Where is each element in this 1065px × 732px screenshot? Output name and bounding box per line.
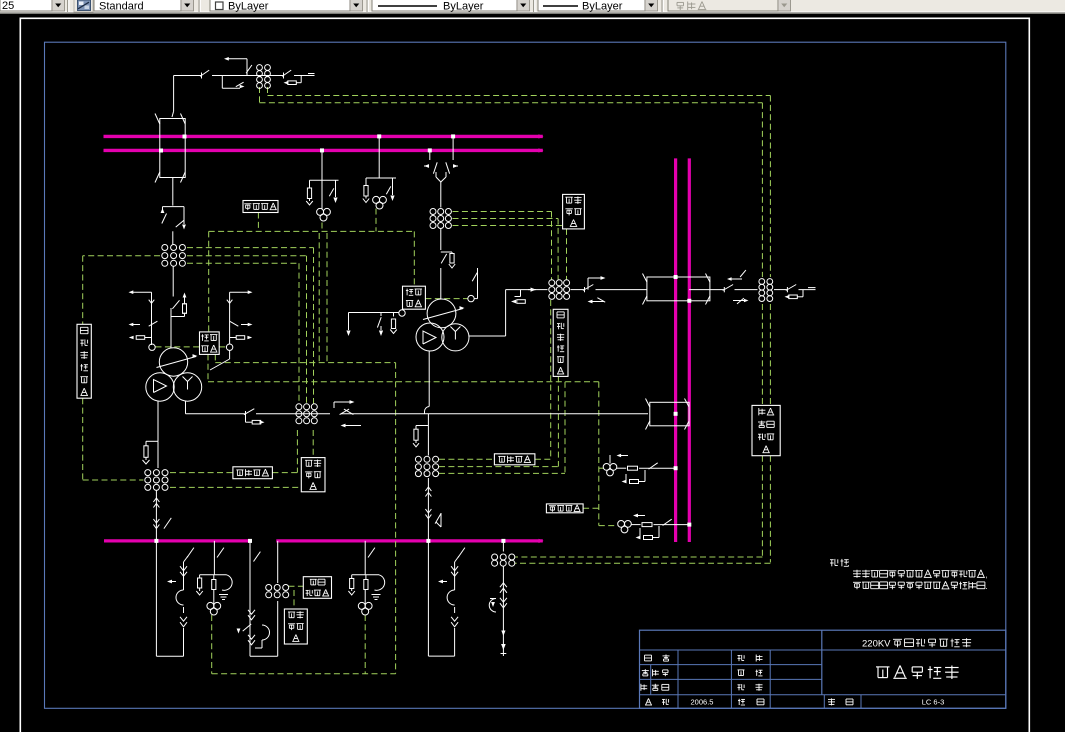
left switch group at T1 (HV neutral gear) bbox=[133, 291, 152, 293]
CT110 3x3 on 110kV feeder bbox=[415, 456, 421, 462]
protection wiring: top CT pair to line CT loop (lower) bbox=[260, 102, 763, 104]
T2 switch group left (10kV tertiary) bbox=[349, 312, 400, 314]
protection wiring: zero-seq box1 second bottom stub bbox=[214, 354, 216, 362]
surge arrester on T1 LV bbox=[145, 441, 147, 446]
220kV outgoing line row bbox=[506, 289, 548, 291]
node circle right of zero-seq box2 bbox=[468, 295, 474, 301]
busbar 110kV bus W4 vertical bbox=[688, 158, 691, 542]
PT bay P1 on bus W2 bbox=[321, 150, 323, 180]
junction dot P2 on bus W1 bbox=[377, 134, 381, 138]
label box: overload protection 1 bbox=[563, 194, 585, 229]
svg-text:ByLayer: ByLayer bbox=[582, 1, 623, 13]
T2 LV drop to 110kV row bbox=[428, 351, 430, 407]
toolbar combo: plot style (disabled) bbox=[668, 0, 778, 11]
title block text: drawing title bbox=[876, 666, 959, 680]
wire CT2 to T2 with disconnector bbox=[440, 229, 442, 251]
feeder row Y524 from trefoil to bus W4 bbox=[618, 521, 625, 528]
label box: overload protection 3 bbox=[284, 609, 307, 644]
svg-text:Standard: Standard bbox=[99, 1, 144, 13]
protection wiring: top line CT tails bbox=[259, 87, 261, 103]
protection wiring: long run y382 bbox=[208, 381, 599, 383]
label box: longitudinal differential protection 2 bbox=[233, 467, 273, 479]
disconnector QS1 on incoming line bbox=[200, 70, 209, 76]
title block small labels bbox=[645, 655, 652, 661]
110kV breaker frame QF2 across vertical buses bbox=[650, 402, 689, 426]
junction square T1 on 10kV bus bbox=[154, 539, 158, 543]
protection wiring: zero-seq box1 bottom run bbox=[207, 354, 209, 381]
CT6 on outgoing feeder 3x2 bbox=[492, 554, 498, 560]
svg-text::: : bbox=[848, 559, 850, 568]
feeder drawout + switch to line arrow bbox=[502, 567, 504, 657]
toolbar icon button standard style bbox=[74, 0, 93, 12]
T2 MV link to 220kV outgoing row bbox=[469, 335, 506, 337]
label box: two-stage current protection bbox=[752, 405, 780, 455]
CT2 220kV side of T2 3x3 bbox=[430, 209, 436, 215]
CT2a 110kV side 3x3 bbox=[296, 404, 302, 410]
busbar 10kV bus section A bbox=[104, 539, 252, 542]
10kV bus-tie bay U-loop bbox=[249, 541, 251, 656]
protection wiring: zero-seq box2 to node bbox=[425, 298, 467, 300]
protection wiring: zero-seq box1 lead left bbox=[156, 346, 200, 348]
CT1b 10kV side 3x3 bbox=[145, 470, 151, 476]
protection wiring: CT1 row2 right to collector bbox=[187, 255, 307, 257]
transformer T1 three-winding bbox=[159, 348, 187, 376]
busbar 220kV bus W2 horizontal bbox=[104, 149, 543, 152]
toolbar combo: Standard bbox=[94, 0, 181, 11]
toolbar combo: color ByLayer bbox=[210, 0, 350, 11]
protection wiring: CT2a verticals below bbox=[296, 430, 298, 473]
svg-text:220KV: 220KV bbox=[862, 639, 891, 650]
feeder row Y468 from trefoil to bus W3 bbox=[609, 455, 611, 464]
double disconnector on outgoing row bbox=[583, 285, 593, 291]
label box: bus protection 2 bbox=[546, 504, 583, 513]
protection wiring: PT1 trefoil pair verticals bbox=[318, 233, 320, 363]
10kV bay B1: transformer feeder U-loop bbox=[155, 541, 157, 656]
svg-text:,: , bbox=[986, 571, 988, 580]
protection wiring: overload box T1 drop to 220kV CT bbox=[566, 229, 568, 280]
CT1 220kV side 3x3 bbox=[162, 245, 168, 251]
protection wiring: CT1b row3 to overload box2 bbox=[170, 486, 301, 488]
110kV row wire bbox=[186, 413, 246, 415]
10kV bay B4: PT bay 2 bbox=[364, 541, 366, 562]
protection wiring: CT1b row1 to long-diff box2 bbox=[170, 472, 233, 474]
CT5 on bus-tie 3x2 bbox=[266, 585, 272, 591]
protection wiring: CT1 row1 to collector bbox=[187, 247, 314, 249]
wire: breaker to disconnector pair bbox=[172, 178, 174, 206]
toolbar combo: lineweight ByLayer bbox=[538, 0, 645, 11]
protection wiring: zero-seq box1 lead right bbox=[219, 346, 226, 348]
protection wiring: bus protection box2 link bbox=[583, 507, 599, 509]
label box: current quick-break protection 1 (vertical) bbox=[77, 324, 91, 398]
disconnector QS2 on incoming line bbox=[282, 70, 291, 76]
arrester branch at T2 HV bbox=[441, 251, 452, 253]
arrow+arrester on outgoing row left bbox=[520, 290, 522, 297]
notes: shuoming text bbox=[830, 559, 849, 566]
double disconnector on 110kV row bbox=[340, 409, 350, 415]
disconnector pair QS3 bbox=[163, 206, 185, 208]
junction dot P1 on bus W2 bbox=[320, 148, 324, 152]
disconnector on T1 HV bbox=[172, 300, 179, 309]
surge arrester branch T1 HV bbox=[171, 316, 185, 318]
protection wiring: long vertical x396 bbox=[395, 363, 397, 674]
node circle below zero-seq box2 bbox=[399, 310, 405, 316]
toolbar combo: text size 25 bbox=[0, 0, 52, 11]
10kV bay B2: PT bay bbox=[213, 541, 215, 562]
svg-text:ByLayer: ByLayer bbox=[443, 1, 484, 13]
protection wiring: PT2 drop bbox=[375, 209, 377, 232]
protection wiring: mid run y362 bbox=[215, 362, 395, 364]
protection wiring: PT1 drop bbox=[321, 223, 323, 232]
svg-text:2006.5: 2006.5 bbox=[691, 698, 714, 707]
double disconnector right of QF3 bbox=[723, 285, 733, 291]
drawout chevrons + switch on 110kV feeder bbox=[425, 487, 431, 491]
T2 bay drops from buses bbox=[429, 150, 431, 160]
protection wiring: CT110 rows to boxes bbox=[439, 458, 494, 460]
protection wiring: bus protection box 1 drop bbox=[257, 213, 259, 232]
label box: overcurrent protection bbox=[303, 577, 331, 599]
PT bay P2 on bus W1 bbox=[378, 136, 380, 178]
transformer T2 three-winding bbox=[427, 299, 456, 328]
label box: bus protection 1 bbox=[243, 201, 278, 213]
110kV feeder drop from row to 10kV bus bbox=[427, 414, 429, 456]
T1 MV lead to 110kV row bbox=[185, 401, 187, 414]
wire: incoming drop to breaker bbox=[173, 76, 175, 112]
protection wiring: CT2 rows to 220kV line CT columns bbox=[453, 211, 552, 213]
node circle T1 left bbox=[149, 344, 155, 350]
CT3 on outgoing row 3x3 bbox=[549, 280, 555, 286]
breaker QF1 frame across 220kV buses bbox=[160, 119, 185, 178]
svg-text:ByLayer: ByLayer bbox=[228, 1, 269, 13]
protection wiring: top CT pair to line CT loop (upper) bbox=[268, 95, 771, 97]
toolbar combo: linetype ByLayer bbox=[372, 0, 517, 11]
disconnector + arrester on 110kV row left bbox=[244, 409, 254, 415]
arrester branch on 110kV feeder bbox=[416, 425, 428, 427]
right switch group at T2 link bbox=[230, 291, 248, 293]
label box: zero sequence protection 1 bbox=[200, 332, 220, 355]
protection wiring: CT1 row3 to collector bbox=[187, 262, 299, 264]
toolbar background bbox=[0, 0, 1065, 13]
junction dots on buses at breaker QF1 bbox=[183, 135, 187, 139]
svg-text:25: 25 bbox=[2, 0, 14, 12]
10kV bay B5: feeder U-loop 2 bbox=[427, 541, 429, 656]
earth resistor branch on incoming line bbox=[300, 76, 302, 83]
label box: overload protection 2 bbox=[301, 458, 325, 492]
10kV outgoing feeder with CT bbox=[502, 541, 504, 552]
svg-text:.: . bbox=[986, 582, 988, 591]
protection wiring: feeder CT to boxes (bottom) bbox=[289, 585, 304, 587]
wire: CT1 to transformer T1 bbox=[172, 267, 174, 297]
branch arrow down-right bbox=[221, 76, 223, 89]
busbar 110kV bus W3 vertical bbox=[674, 158, 677, 542]
wire: 220kV incoming line bbox=[174, 75, 202, 77]
label box: zero sequence protection 2 bbox=[403, 286, 426, 309]
svg-text:LC 6-3: LC 6-3 bbox=[922, 698, 945, 707]
breaker QF3 frame across vertical buses bbox=[647, 277, 710, 301]
T1 LV lead down bbox=[157, 401, 159, 441]
protection wiring: bottom run y674 bbox=[212, 673, 396, 675]
busbar 220kV bus W1 horizontal bbox=[104, 135, 543, 138]
title block frame bbox=[640, 630, 1006, 708]
protection wiring: CT1 row2 left to speed-break box bbox=[83, 255, 160, 257]
CT4 on outgoing row 2x4 bbox=[759, 279, 765, 285]
node circle right of zero-seq box1 bbox=[226, 344, 232, 350]
label box: current quick-break protection 2 (vertical) bbox=[553, 309, 568, 376]
branch arrow up-left with earth switch bbox=[246, 59, 248, 76]
protection wiring: top bus tie run bbox=[209, 230, 415, 232]
wire: CT1b to 10kV bus with drawout marks bbox=[155, 491, 157, 541]
label box: longitudinal differential protection 1 bbox=[494, 454, 535, 465]
busbar 10kV bus section B bbox=[276, 539, 543, 542]
protection wiring: verticals near x550 bbox=[550, 300, 552, 459]
earth branch at line exit bbox=[786, 285, 796, 291]
CT T0 on incoming line 2x4 bbox=[257, 65, 263, 71]
